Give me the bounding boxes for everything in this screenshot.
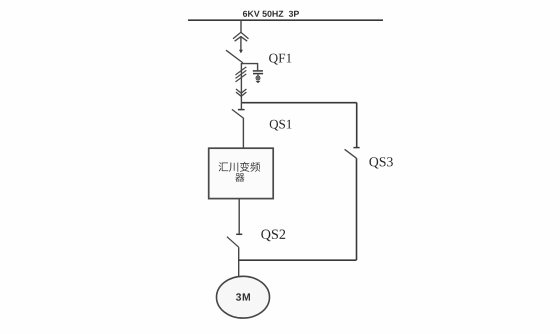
wire QS1 to inverter box: [242, 119, 244, 149]
wire bus to QF1 drawout: [240, 20, 242, 32]
wire QF1 lower terminal: [240, 63, 242, 103]
wire bypass right upper: [356, 103, 358, 148]
indicator lamp: [256, 76, 260, 80]
label QS3: [369, 157, 392, 168]
indicator arrow: [256, 81, 261, 83]
bus 6KV 50HZ 3P: [188, 19, 383, 21]
label QS1: [270, 120, 292, 131]
disconnector QS1: [232, 103, 245, 119]
label 汇川变频器: [219, 162, 261, 182]
wire bypass bottom: [239, 259, 357, 261]
wire QS2 to motor: [238, 247, 240, 276]
wire inverter box to QS2: [238, 199, 240, 234]
label QS2: [261, 230, 285, 242]
label bus 6KV 50HZ 3P: [243, 11, 299, 17]
inverter box: [209, 148, 274, 198]
disconnector QS3: [345, 148, 360, 159]
wire branch to voltage indicator: [241, 64, 257, 71]
label QF1: [269, 54, 291, 65]
label 3M: [236, 293, 250, 300]
capacitor plates of voltage indicator: [253, 71, 263, 74]
QF1 drawout contact lower chevrons: [236, 89, 246, 96]
wire bypass top: [241, 102, 356, 104]
motor 3M: [217, 276, 270, 318]
circuit breaker QF1 blade: [226, 50, 243, 63]
wire bypass right lower: [356, 158, 358, 260]
QF1 operating arrow: [239, 37, 243, 54]
disconnector QS2: [227, 234, 242, 247]
wire to indicator lamp: [257, 74, 259, 76]
three-phase hatch marks: [236, 67, 247, 82]
QF1 drawout contact upper chevrons: [233, 32, 249, 41]
